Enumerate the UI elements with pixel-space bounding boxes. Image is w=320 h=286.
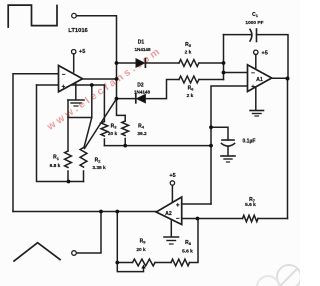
square wave glyph xyxy=(8,5,57,27)
wire input to bus xyxy=(76,16,125,116)
ground 0.1uF xyxy=(221,155,235,157)
wire LT1016 noninverting line xyxy=(37,84,105,86)
R9 wiper arrow xyxy=(141,265,145,269)
junction R4 bottom node xyxy=(123,144,127,148)
svg-text:−: − xyxy=(251,70,255,77)
supply +5 A2 xyxy=(170,181,174,185)
ground A1 xyxy=(255,88,257,111)
op-amp LT1016 xyxy=(59,66,83,92)
op-amp A1 xyxy=(248,65,272,92)
wire D2 to R6 xyxy=(145,80,179,99)
resistor R4 xyxy=(124,115,126,121)
svg-text:0.1µF: 0.1µF xyxy=(243,138,256,144)
svg-text:2 k: 2 k xyxy=(187,93,194,99)
svg-text:5.6 k: 5.6 k xyxy=(245,202,256,208)
svg-text:R6: R6 xyxy=(188,86,195,92)
resistor R1 xyxy=(65,151,72,168)
wire cap branch xyxy=(211,127,228,140)
svg-text:20 k: 20 k xyxy=(108,131,118,137)
svg-text:D1: D1 xyxy=(138,40,145,46)
watermark www.elecfans.com xyxy=(45,45,165,133)
junction A1 output node xyxy=(286,77,290,81)
wire node to R2 top slant xyxy=(84,85,92,148)
wire to A1 inverting input xyxy=(224,72,248,74)
resistor R9 xyxy=(133,259,156,266)
svg-text:R4: R4 xyxy=(138,123,145,129)
svg-text:A2: A2 xyxy=(165,211,172,217)
svg-text:5.6 k: 5.6 k xyxy=(182,249,193,255)
junction R9 riser node xyxy=(115,210,119,214)
junction D1 anode node xyxy=(115,61,119,65)
wire LT1016 inverting input + left bus xyxy=(13,74,59,212)
junction bypass cap branch xyxy=(209,125,213,129)
svg-text:+5: +5 xyxy=(262,50,268,56)
svg-text:R2: R2 xyxy=(95,158,102,164)
wire R5 to node xyxy=(199,62,224,64)
junction A1 inverting node xyxy=(222,71,226,75)
right bus xyxy=(287,78,289,219)
watermark logo bottom right xyxy=(257,265,301,286)
svg-text:R3: R3 xyxy=(111,124,118,130)
svg-text:1000 PF: 1000 PF xyxy=(245,20,263,26)
rail R3R4 to node xyxy=(104,145,211,147)
svg-text:+5: +5 xyxy=(169,173,175,179)
resistor R7 xyxy=(243,215,259,221)
bottom rail xyxy=(117,262,132,264)
wire D1 to R5 xyxy=(146,62,179,64)
svg-text:1N4148: 1N4148 xyxy=(134,90,151,95)
supply +5 A1 xyxy=(254,50,258,54)
wire D2 branch xyxy=(117,98,136,100)
supply +5 LT1016 xyxy=(72,50,76,54)
node vertical C1 left xyxy=(223,35,225,80)
wire C1 top left xyxy=(224,34,252,36)
capacitor C1 xyxy=(250,29,252,41)
resistor R6 xyxy=(179,76,199,83)
svg-text:R1: R1 xyxy=(53,155,60,161)
input terminal xyxy=(72,13,77,18)
svg-text:R8: R8 xyxy=(185,240,192,246)
svg-text:1N4148: 1N4148 xyxy=(134,47,151,52)
svg-text:LT1016: LT1016 xyxy=(68,28,88,34)
wire A2 + input xyxy=(182,203,211,205)
wire horizontal R1 to slant xyxy=(68,117,92,119)
junction LT1016 plus node xyxy=(90,83,94,87)
svg-text:3.38 k: 3.38 k xyxy=(92,165,106,171)
wire R6 to node xyxy=(199,79,224,81)
junction R9 rail node xyxy=(115,261,119,265)
junction A2 inverting node xyxy=(196,217,200,221)
svg-text:2 k: 2 k xyxy=(185,50,192,56)
wire R9 rail riser xyxy=(116,212,118,263)
svg-text:+: + xyxy=(62,83,66,90)
svg-text:+5: +5 xyxy=(79,49,85,55)
wire A1 + input xyxy=(211,86,248,204)
resistor R3 xyxy=(103,85,105,122)
wire R9 wiper loop xyxy=(117,263,143,272)
diode D2 xyxy=(135,94,137,102)
svg-text:+: + xyxy=(251,83,255,90)
wire D1 branch xyxy=(117,62,137,64)
wire A2 - input xyxy=(182,218,243,220)
junction LT1016 output node xyxy=(115,77,119,81)
triangle wave glyph xyxy=(14,243,60,261)
ground A2 xyxy=(170,221,172,237)
junction bias rail node xyxy=(209,144,213,148)
wire A1 output xyxy=(272,77,288,79)
svg-text:C1: C1 xyxy=(252,12,259,18)
svg-text:20 k: 20 k xyxy=(136,247,146,253)
wire R8 to A2 - riser xyxy=(190,219,199,263)
svg-text:A1: A1 xyxy=(256,77,263,83)
svg-text:+: + xyxy=(176,202,180,209)
wire A2 output line xyxy=(13,211,156,213)
svg-text:R7: R7 xyxy=(249,197,256,203)
wire terminal branch xyxy=(76,212,101,254)
capacitor 0.1uF xyxy=(222,139,234,141)
resistor R5 xyxy=(179,60,199,67)
svg-text:39.2: 39.2 xyxy=(137,131,147,137)
junction R1 R2 rail node xyxy=(67,180,71,184)
svg-text:D2: D2 xyxy=(137,82,144,88)
junction R5 C1 node xyxy=(222,61,226,65)
output terminal xyxy=(72,251,77,256)
resistor R8 xyxy=(171,259,190,266)
wire LT1016 output xyxy=(83,78,117,80)
wire left vertical to R1R2 rail xyxy=(37,85,84,182)
ground LT1016 xyxy=(75,84,77,100)
wire R1 riser xyxy=(67,100,69,151)
diode D1 xyxy=(136,59,145,67)
svg-text:−: − xyxy=(176,216,180,223)
svg-text:R5: R5 xyxy=(185,42,192,48)
junction output terminal riser xyxy=(99,210,103,214)
op-amp A2 xyxy=(156,197,182,225)
svg-text:−: − xyxy=(62,71,66,78)
junction D2 node xyxy=(115,97,119,101)
wire C1 right xyxy=(257,35,289,78)
svg-text:6.8 k: 6.8 k xyxy=(50,163,61,169)
resistor R2 xyxy=(80,148,87,168)
diagonal R2 top to D2 node xyxy=(85,99,117,149)
svg-text:R9: R9 xyxy=(140,238,147,244)
